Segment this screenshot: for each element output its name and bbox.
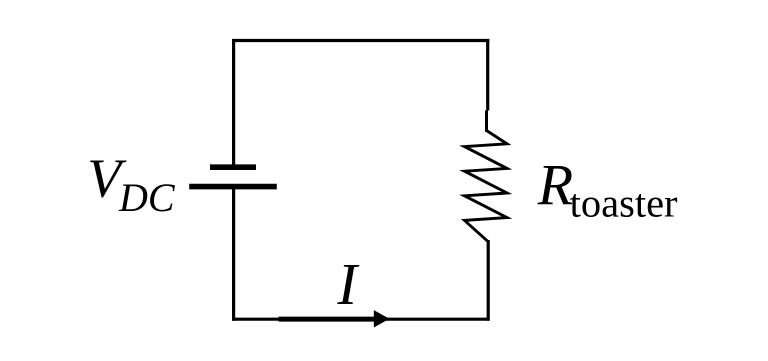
wire left lower (battery bottom lead) xyxy=(232,188,235,321)
current arrow I segment xyxy=(279,317,377,322)
resistor R_toaster zigzag xyxy=(465,131,508,242)
battery V1 bottom plate xyxy=(189,184,277,190)
wire left upper (battery top lead) xyxy=(232,39,235,165)
current arrowhead xyxy=(374,310,390,327)
svg-text:toaster: toaster xyxy=(570,181,678,226)
wire right lower (resistor bottom lead) xyxy=(487,240,490,321)
wire bottom xyxy=(232,318,489,321)
wire right upper (resistor top lead) xyxy=(486,39,489,111)
battery V1 top plate xyxy=(210,164,256,170)
svg-text:I: I xyxy=(337,252,360,317)
svg-text:R: R xyxy=(537,152,573,217)
wire top xyxy=(232,39,489,42)
svg-text:DC: DC xyxy=(118,175,176,220)
